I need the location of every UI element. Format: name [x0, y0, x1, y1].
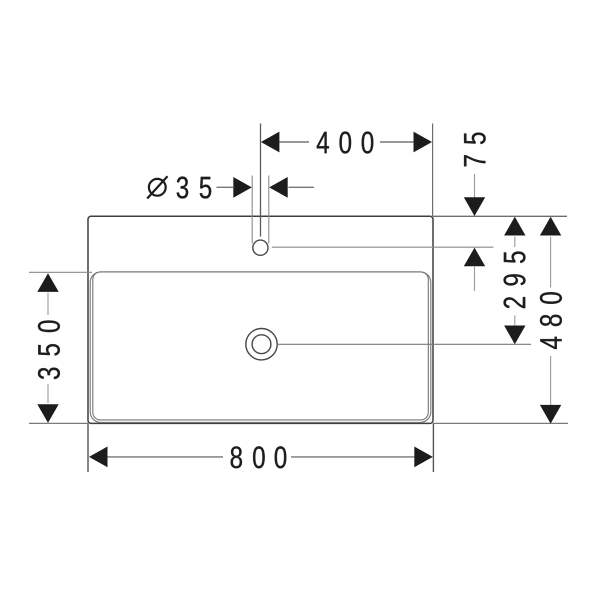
- dimension 480: [540, 217, 561, 424]
- extension line: bottom edge extended both sides: [29, 422, 568, 424]
- dimension 400 label: [317, 132, 374, 154]
- dimension Ø35 arrows: [217, 177, 315, 198]
- dimension 295: [504, 217, 525, 344]
- dimension 800 label: [231, 446, 287, 468]
- dimension 75 label: [464, 133, 486, 167]
- extension line: hole right tangent: [268, 176, 270, 244]
- faucet hole circle: [253, 240, 268, 255]
- basin bowl inner rim (double line): [90, 272, 431, 423]
- dimension 350 label: [38, 321, 60, 380]
- extension line: basin top edge extended right: [433, 215, 567, 217]
- dimension 480 label: [540, 292, 562, 349]
- extension line: hole left tangent: [251, 176, 253, 244]
- extension line: faucet centerline up: [260, 124, 262, 237]
- dimension 295 label: [504, 251, 526, 308]
- dimension 75: [464, 174, 485, 291]
- extension line: faucet hole to right: [272, 246, 494, 248]
- basin outer outline: [88, 216, 433, 423]
- dimension Ø35 label: [147, 176, 211, 198]
- dimension 800: [89, 447, 433, 468]
- drain inner circle: [252, 335, 271, 354]
- dimension 350: [37, 273, 58, 423]
- extension line: drain center to right: [278, 343, 531, 345]
- extension line: right edge of 400 dim: [432, 124, 434, 217]
- extension line: bowl top edge extended left: [29, 271, 92, 273]
- extension line: basin right bottom for 800: [432, 423, 434, 472]
- extension line: basin left bottom for 800: [87, 423, 89, 472]
- drain outer circle: [246, 329, 277, 360]
- dimension 400 line: [261, 132, 432, 153]
